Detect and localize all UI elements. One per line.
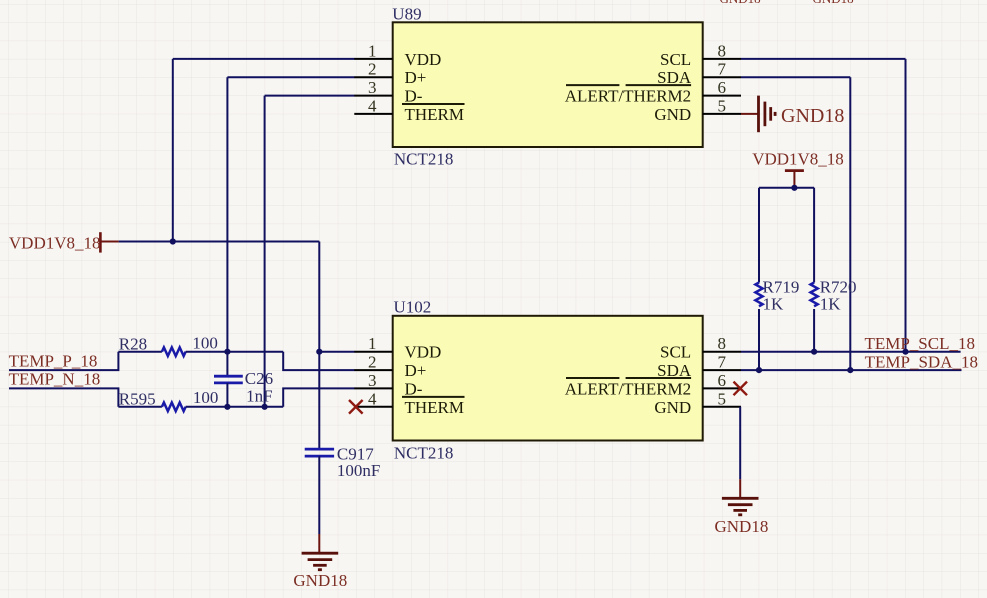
- svg-text:2: 2: [368, 353, 377, 372]
- no-connect X at U102 pin 6: [734, 382, 748, 396]
- wire U89 pin3 vertical (D- to N row): [264, 96, 266, 407]
- svg-text:6: 6: [718, 371, 727, 390]
- svg-text:THERM: THERM: [405, 105, 465, 124]
- svg-text:D+: D+: [405, 68, 427, 87]
- svg-text:1K: 1K: [820, 295, 842, 314]
- svg-text:NCT218: NCT218: [394, 443, 454, 462]
- wire U102 pin1 horizontal: [319, 351, 354, 353]
- svg-text:1: 1: [368, 334, 377, 353]
- svg-text:GND18: GND18: [720, 0, 761, 6]
- wire pull-up top rail: [759, 187, 814, 189]
- resistor R720: [811, 188, 857, 352]
- svg-text:R719: R719: [763, 277, 800, 296]
- pin 3 U89: [354, 95, 392, 97]
- net label TEMP_SDA_18: [865, 353, 978, 372]
- svg-text:TEMP_N_18: TEMP_N_18: [9, 370, 101, 389]
- svg-text:VDD1V8_18: VDD1V8_18: [9, 234, 101, 253]
- pin 8 U102: [703, 351, 741, 353]
- pin 4 U102: [354, 406, 392, 408]
- wire U89 pin8 horizontal: [741, 58, 906, 60]
- wire N row left of R595: [118, 406, 161, 408]
- net label GND18 fragment top left (cropped): [720, 0, 761, 6]
- junction R720 / SCL: [811, 349, 817, 355]
- svg-text:2: 2: [368, 60, 377, 79]
- pin 3 U102: [354, 387, 392, 389]
- svg-text:R28: R28: [119, 334, 147, 353]
- power port VDD1V8_18 (right, T-bar): [752, 150, 844, 188]
- no-connect X at U102 pin 4: [349, 400, 363, 414]
- pin 2 U89: [354, 76, 392, 78]
- pin 6 U89: [703, 95, 741, 97]
- svg-text:6: 6: [718, 78, 727, 97]
- svg-text:D-: D-: [405, 87, 423, 106]
- net label TEMP_N_18: [9, 370, 101, 389]
- wire N row right of R595: [186, 406, 284, 408]
- net label TEMP_SCL_18: [864, 334, 975, 353]
- svg-text:100: 100: [193, 388, 219, 407]
- svg-text:NCT218: NCT218: [394, 149, 454, 168]
- svg-text:TEMP_SCL_18: TEMP_SCL_18: [864, 334, 975, 353]
- resistor R719: [755, 188, 799, 370]
- svg-text:GND18: GND18: [781, 105, 844, 127]
- svg-text:8: 8: [718, 41, 727, 60]
- svg-text:TEMP_SDA_18: TEMP_SDA_18: [865, 353, 978, 372]
- wire U89 pin7 vertical to SDA: [849, 77, 851, 370]
- wire U89 pin1 VDD vertical: [172, 59, 174, 242]
- wire TEMP_SCL_18 row: [741, 351, 961, 353]
- junction R719 / SDA: [756, 367, 762, 373]
- svg-text:D+: D+: [405, 361, 427, 380]
- wire U89 pin1 horizontal: [173, 58, 355, 60]
- pin 7 U89: [703, 76, 741, 78]
- net label TEMP_P_18: [9, 351, 98, 370]
- svg-text:7: 7: [718, 60, 727, 79]
- svg-text:5: 5: [718, 389, 727, 408]
- svg-text:VDD1V8_18: VDD1V8_18: [752, 150, 844, 169]
- pin 5 U102: [703, 406, 741, 408]
- svg-text:7: 7: [718, 353, 727, 372]
- ground GND18 (under U102 pin5): [715, 479, 769, 536]
- svg-text:THERM: THERM: [405, 398, 465, 417]
- svg-text:ALERT/THERM2: ALERT/THERM2: [565, 379, 691, 398]
- junction VDD vertical / pin1 row: [316, 349, 322, 355]
- svg-text:1nF: 1nF: [246, 387, 272, 406]
- capacitor C26: [214, 369, 273, 407]
- svg-text:R595: R595: [119, 389, 156, 408]
- junction VDD rail / pin1: [170, 238, 176, 244]
- svg-text:VDD: VDD: [405, 343, 442, 362]
- svg-text:VDD: VDD: [405, 50, 442, 69]
- pin 1 U102: [354, 351, 392, 353]
- wire TEMP_P_18 entry: [9, 352, 118, 370]
- junction N row / D- vertical: [262, 404, 268, 410]
- svg-text:100nF: 100nF: [337, 461, 380, 480]
- net label GND18 fragment top right (cropped): [813, 0, 854, 6]
- svg-text:R720: R720: [820, 277, 857, 296]
- svg-text:3: 3: [368, 371, 377, 390]
- junction N row / C26: [224, 404, 230, 410]
- svg-text:GND18: GND18: [293, 571, 347, 590]
- svg-text:3: 3: [368, 78, 377, 97]
- svg-text:TEMP_P_18: TEMP_P_18: [9, 351, 98, 370]
- pin 7 U102: [703, 369, 741, 371]
- junction P row / C26 / D+: [224, 349, 230, 355]
- svg-text:1: 1: [368, 41, 377, 60]
- wire TEMP_SDA_18 row: [741, 369, 962, 371]
- wire VDD rail down to U102 pin1 and C917: [318, 242, 320, 450]
- svg-text:8: 8: [718, 334, 727, 353]
- svg-text:1K: 1K: [763, 295, 785, 314]
- wire P row jog down to pin2 row: [283, 352, 354, 370]
- pin 5 U89: [703, 113, 741, 115]
- svg-text:SCL: SCL: [660, 343, 691, 362]
- junction U89 pin7 / SDA: [847, 367, 853, 373]
- resistor R28: [119, 333, 218, 356]
- resistor R595: [119, 388, 219, 411]
- svg-text:4: 4: [368, 96, 377, 115]
- IC U102: [354, 297, 741, 462]
- ground GND18 (sideways, at U89 pin5): [741, 96, 844, 133]
- wire P row right of R28: [186, 351, 284, 353]
- wire U102 pin5 to ground: [739, 407, 741, 479]
- wire VDD1V8_18 horizontal rail: [119, 241, 320, 243]
- wire U89 pin8 vertical to SCL: [905, 59, 907, 352]
- IC U89: [354, 4, 741, 168]
- pin 8 U89: [703, 58, 741, 60]
- svg-text:SCL: SCL: [660, 50, 691, 69]
- wire U89 pin3 horizontal: [265, 95, 355, 97]
- svg-text:GND: GND: [654, 105, 691, 124]
- ground GND18 (bottom, under C917): [293, 534, 347, 590]
- wire U89 pin2 vertical (D+ to C26 top): [226, 77, 228, 376]
- svg-text:GND18: GND18: [715, 517, 769, 536]
- wire TEMP_N_18 entry: [9, 388, 118, 406]
- power port VDD1V8_18 (left, bar style): [9, 232, 119, 252]
- svg-text:C26: C26: [245, 369, 273, 388]
- svg-text:5: 5: [718, 96, 727, 115]
- wire U89 pin7 horizontal: [741, 76, 850, 78]
- svg-text:4: 4: [368, 389, 377, 408]
- pin 1 U89: [354, 58, 392, 60]
- pin 2 U102: [354, 369, 392, 371]
- svg-text:D-: D-: [405, 379, 423, 398]
- wire N row jog up to pin3 row: [283, 388, 354, 406]
- pin 4 U89: [354, 113, 392, 115]
- wire P row left of R28: [118, 351, 161, 353]
- svg-text:U89: U89: [392, 4, 421, 23]
- svg-text:GND18: GND18: [813, 0, 854, 6]
- pin 6 U102: [703, 387, 741, 389]
- svg-text:100: 100: [192, 333, 218, 352]
- junction VDD T / rail: [791, 185, 797, 191]
- junction U89 pin8 / SCL: [902, 349, 908, 355]
- wire U89 pin2 horizontal: [227, 76, 354, 78]
- svg-text:GND: GND: [654, 398, 691, 417]
- svg-text:U102: U102: [394, 297, 432, 316]
- svg-text:ALERT/THERM2: ALERT/THERM2: [565, 87, 691, 106]
- capacitor C917: [305, 445, 381, 534]
